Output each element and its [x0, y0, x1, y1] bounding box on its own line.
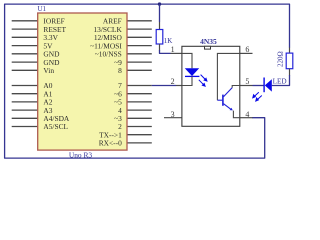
Arduino Uno R3 body U1	[38, 13, 127, 150]
svg-text:RX<--0: RX<--0	[99, 139, 122, 148]
pin 6 stub (NC)	[240, 52, 253, 54]
svg-text:1K: 1K	[164, 37, 173, 45]
svg-text:8: 8	[118, 66, 122, 75]
internal LED cathode bar	[185, 75, 199, 77]
resistor R2 220	[286, 53, 293, 69]
svg-text:U1: U1	[38, 5, 47, 13]
collector lead	[224, 88, 233, 97]
svg-text:Vin: Vin	[43, 66, 54, 75]
svg-text:220Ω: 220Ω	[277, 51, 285, 67]
svg-text:LED: LED	[273, 77, 287, 85]
light arrow a	[199, 75, 207, 87]
svg-text:6: 6	[245, 45, 249, 54]
resistor R1 top pin stub	[159, 22, 161, 30]
Arduino U1 pin stubs left	[12, 21, 38, 127]
internal LED anode wire	[182, 53, 192, 68]
svg-text:Uno R3: Uno R3	[69, 150, 93, 159]
resistor R1 bottom pin stub	[159, 44, 161, 51]
wire: D7 to opto pin 2	[152, 85, 176, 87]
Arduino U1 pin stubs right	[127, 21, 152, 143]
svg-text:A5/SCL: A5/SCL	[43, 122, 68, 131]
pin 1 stub	[171, 52, 182, 54]
light arrow b	[201, 75, 206, 80]
pin names left column	[43, 17, 70, 132]
emitter lead with arrow	[224, 104, 231, 109]
IC notch mark	[205, 46, 211, 49]
LED cathode bar	[263, 78, 265, 93]
internal LED cathode wire to pin 2	[182, 76, 192, 85]
resistor R1 1K	[156, 30, 163, 45]
wire: R1 bottom to opto pin 1	[160, 50, 171, 53]
resistor R2 bottom pin stub	[289, 69, 291, 76]
pin 3 stub (NC)	[164, 117, 182, 119]
wire: R2 bottom to LED anode	[272, 75, 290, 86]
collector wire to pin 5	[232, 86, 240, 88]
wire: pin 5 to LED cathode	[253, 85, 265, 87]
wire: power loop left/bottom (net VCC loop)	[5, 4, 265, 158]
internal LED triangle	[185, 68, 199, 76]
LED arrow b	[257, 96, 262, 100]
node junction dot	[158, 2, 161, 5]
svg-text:4: 4	[245, 110, 249, 119]
base bar	[222, 95, 224, 106]
svg-text:5: 5	[245, 77, 249, 86]
pin 2 stub	[176, 85, 182, 87]
pin names right column	[90, 17, 122, 148]
LED arrow a	[253, 92, 262, 101]
svg-text:3: 3	[171, 110, 175, 119]
optocoupler U2 4N35 body	[182, 46, 240, 126]
wire: top run to right side	[160, 4, 290, 47]
svg-text:4N35: 4N35	[200, 37, 217, 46]
pin 5 stub	[240, 85, 253, 87]
svg-text:1: 1	[171, 45, 175, 54]
pin 4 stub	[240, 117, 253, 119]
base lead	[217, 99, 222, 101]
wire: loop down toward resistor R1	[159, 4, 161, 22]
resistor R2 top pin stub	[289, 48, 291, 54]
LED D1 triangle	[265, 79, 272, 91]
svg-text:2: 2	[171, 77, 175, 86]
phototransistor base wire from pin 6	[217, 53, 239, 100]
emitter wire to pin 4	[233, 111, 239, 118]
